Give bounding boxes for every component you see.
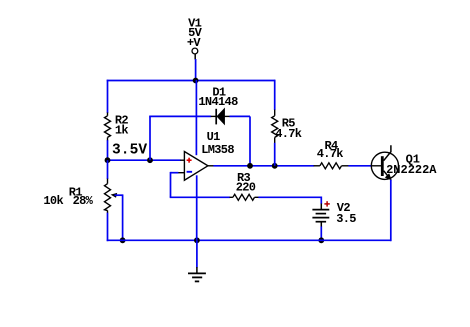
- wire D1 cathode branch vertical: [149, 116, 151, 160]
- op-amp V- pin wire to rail: [196, 175, 198, 197]
- op-amp output pin stub: [208, 165, 214, 167]
- op-amp U1: [184, 152, 208, 181]
- wire V1 to top rail: [195, 59, 197, 81]
- ground: [188, 267, 206, 281]
- wire inverting feedback left: [171, 172, 179, 174]
- resistor R3: [230, 194, 259, 200]
- svg-text:10k: 10k: [43, 194, 63, 208]
- node junction wiper/rail: [120, 237, 126, 243]
- svg-text:28%: 28%: [73, 194, 94, 208]
- label Q1 value: [386, 152, 437, 176]
- node junction top rail / V1: [193, 78, 199, 84]
- label D1: [198, 85, 238, 109]
- resistor R5: [272, 110, 278, 144]
- svg-text:3.5: 3.5: [336, 212, 356, 226]
- wire R2 to node: [107, 140, 109, 160]
- wire battery to bottom rail: [320, 227, 322, 242]
- source V1 terminal: [192, 48, 198, 59]
- wire Q1 emitter to bottom rail: [390, 180, 392, 241]
- node junction ground/rail: [194, 237, 200, 243]
- svg-text:4.7k: 4.7k: [275, 127, 302, 141]
- label R3 value: [236, 171, 256, 195]
- wire output row: [213, 165, 314, 167]
- node junction output/R5: [272, 163, 278, 169]
- wire R3 to battery: [258, 196, 321, 198]
- resistor R2: [105, 113, 111, 141]
- node junction battery/rail: [318, 237, 324, 243]
- label R1 value: [43, 186, 93, 208]
- wire D1 anode to output row: [230, 115, 251, 117]
- op-amp V+ pin wire: [195, 80, 197, 155]
- battery V2: [312, 201, 329, 227]
- label R5 value: [275, 116, 302, 140]
- source V1 labels: [187, 17, 203, 50]
- wire R5 branch top: [274, 80, 276, 110]
- label R4 value: [317, 139, 344, 161]
- svg-text:2N2222A: 2N2222A: [386, 163, 437, 177]
- wire R5 to output row: [274, 143, 276, 166]
- resistor R4: [314, 163, 349, 169]
- wire left column lower / pot section: [107, 160, 109, 179]
- node junction 3.5V left: [105, 157, 111, 163]
- diode D1: [211, 108, 230, 124]
- label R2 value: [115, 113, 129, 137]
- op-amp -in pin stub: [178, 172, 185, 174]
- label V2 value: [336, 201, 356, 226]
- svg-text:LM358: LM358: [201, 143, 234, 157]
- wire D1 cathode branch horizontal: [149, 115, 211, 117]
- wire top rail: [107, 80, 276, 82]
- wire rail to ground: [196, 240, 198, 267]
- node junction output/D1: [247, 163, 253, 169]
- op-amp +in pin stub: [180, 159, 184, 161]
- wire R4 to Q1 base: [348, 165, 371, 167]
- svg-text:3.5V: 3.5V: [112, 142, 147, 158]
- svg-text:4.7k: 4.7k: [317, 147, 344, 161]
- wire noninverting input row: [107, 159, 181, 161]
- wire left column to bottom rail: [107, 213, 109, 242]
- wire bottom rail: [107, 239, 391, 241]
- transistor Q1: [371, 145, 398, 180]
- wire left column upper: [107, 80, 109, 113]
- label U1: [201, 130, 234, 157]
- wire R1 wiper to bottom rail: [122, 194, 124, 241]
- svg-text:1N4148: 1N4148: [198, 95, 238, 109]
- svg-text:220: 220: [236, 181, 256, 195]
- potentiometer R1: [105, 179, 123, 214]
- node junction D1 branch: [147, 157, 153, 163]
- svg-text:1k: 1k: [115, 124, 129, 138]
